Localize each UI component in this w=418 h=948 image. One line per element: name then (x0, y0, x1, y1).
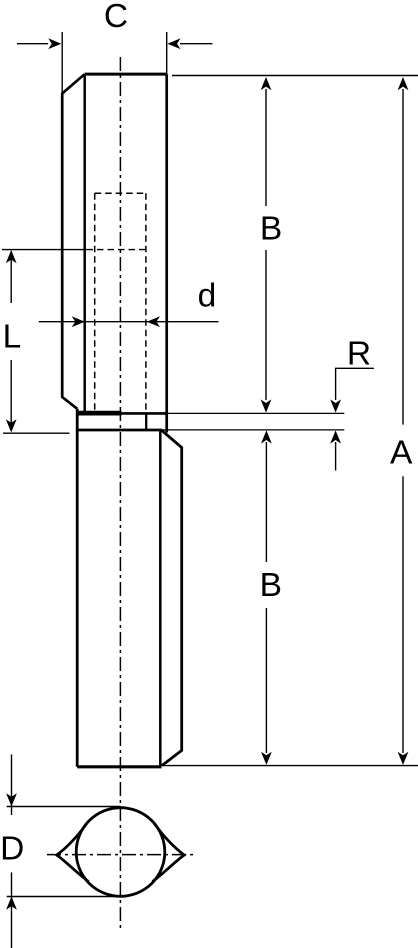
dimension B lower (265, 442, 267, 753)
svg-text:L: L (3, 319, 22, 356)
dimension D (7, 755, 121, 948)
extension line bottom (A/B) (160, 765, 418, 767)
bottom view right horn (153, 823, 185, 882)
junction extension lines (167, 412, 344, 414)
upper leaf outline (62, 74, 167, 432)
svg-text:D: D (0, 830, 24, 867)
dimension d (39, 321, 219, 323)
centerline (pin axis, dash-dot vertical) (119, 57, 121, 928)
svg-text:A: A (390, 435, 413, 472)
dimension L (2, 250, 146, 434)
svg-text:B: B (260, 567, 282, 604)
svg-text:d: d (198, 277, 217, 314)
bottom view left horn (57, 823, 89, 882)
dimension B upper (265, 89, 267, 400)
lower leaf outline (77, 409, 182, 767)
bottom view barrel circle (76, 808, 165, 897)
pin visible in gap (145, 415, 147, 430)
pin hidden (dashed) (95, 193, 146, 414)
dimension A (402, 89, 404, 753)
dimension R (336, 368, 374, 470)
bottom view horizontal centerline (47, 854, 197, 856)
dimension C (17, 32, 212, 94)
weld thick line (bottom of upper leaf, left half) (77, 411, 121, 416)
svg-text:R: R (347, 335, 371, 372)
svg-text:C: C (104, 0, 128, 35)
svg-text:B: B (260, 211, 282, 248)
extension line top (A/B) (172, 75, 418, 77)
